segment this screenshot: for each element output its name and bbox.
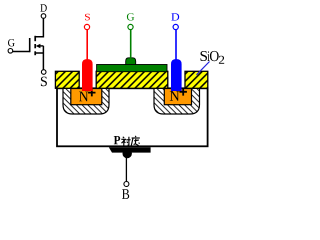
label N left well bbox=[79, 92, 88, 102]
gate contact bump bbox=[126, 58, 136, 65]
SiO2 oxide layer middle segment bbox=[96, 71, 168, 88]
label S (symbol) bbox=[41, 77, 47, 87]
label P (substrate) bbox=[114, 136, 120, 144]
wire gate terminal (green) bbox=[130, 30, 132, 59]
label SiO2: O bbox=[210, 51, 219, 61]
terminal S circle (symbol) bbox=[41, 70, 46, 75]
label G (gate terminal) bbox=[127, 13, 134, 20]
N+ region right (orange) bbox=[164, 89, 191, 105]
bulk electrode bar (black) bbox=[109, 147, 151, 152]
N+ region left (orange) bbox=[71, 89, 102, 105]
transistor Q1 channel body segment bbox=[34, 44, 36, 48]
N+ well right (hatched tub) bbox=[154, 88, 200, 114]
terminal D circle (symbol) bbox=[41, 14, 46, 19]
terminal G circle (green) bbox=[128, 24, 133, 29]
label B (bulk terminal) bbox=[122, 189, 129, 199]
gate electrode (green) bbox=[97, 65, 167, 72]
label G (symbol) bbox=[8, 39, 15, 46]
wire bulk terminal bbox=[125, 158, 127, 181]
bulk contact bump bbox=[123, 149, 132, 158]
wire body to source (symbol) bbox=[39, 45, 43, 47]
label SiO2: i bbox=[207, 51, 209, 61]
SiO2 leader line bbox=[197, 62, 210, 75]
drain metal plug (blue) bbox=[171, 59, 182, 91]
label N right well bbox=[170, 91, 180, 101]
label SiO2: subscript 2 bbox=[219, 56, 224, 64]
label S (source terminal) bbox=[85, 14, 90, 21]
label SiO2: S bbox=[200, 51, 207, 61]
wire drain (symbol) bbox=[35, 19, 43, 37]
P substrate label: chen (衬) glyph bbox=[121, 137, 130, 146]
P substrate label: di (底) glyph bbox=[131, 136, 140, 146]
terminal D circle (blue) bbox=[173, 24, 178, 29]
SiO2 oxide layer right segment bbox=[185, 71, 208, 88]
transistor Q1 channel drain segment bbox=[34, 36, 36, 41]
transistor Q1 body arrow bbox=[36, 44, 41, 49]
terminal S circle (red) bbox=[84, 24, 89, 29]
SiO2 oxide layer left segment bbox=[55, 71, 79, 88]
transistor Q1 channel source segment bbox=[34, 51, 36, 55]
wire drain terminal (blue) bbox=[175, 30, 177, 60]
wire source (symbol) bbox=[35, 46, 43, 70]
transistor Q1 gate bar bbox=[29, 38, 31, 52]
wire source terminal (red) bbox=[86, 30, 88, 60]
P substrate body bbox=[57, 88, 208, 146]
source metal plug (red) bbox=[82, 59, 93, 91]
N+ well left (hatched tub) bbox=[63, 88, 109, 114]
wire gate (symbol) bbox=[13, 51, 30, 53]
label D (symbol) bbox=[40, 4, 46, 11]
terminal G circle (symbol) bbox=[8, 49, 13, 54]
label D (drain terminal) bbox=[171, 13, 179, 20]
terminal B circle bbox=[124, 182, 129, 187]
